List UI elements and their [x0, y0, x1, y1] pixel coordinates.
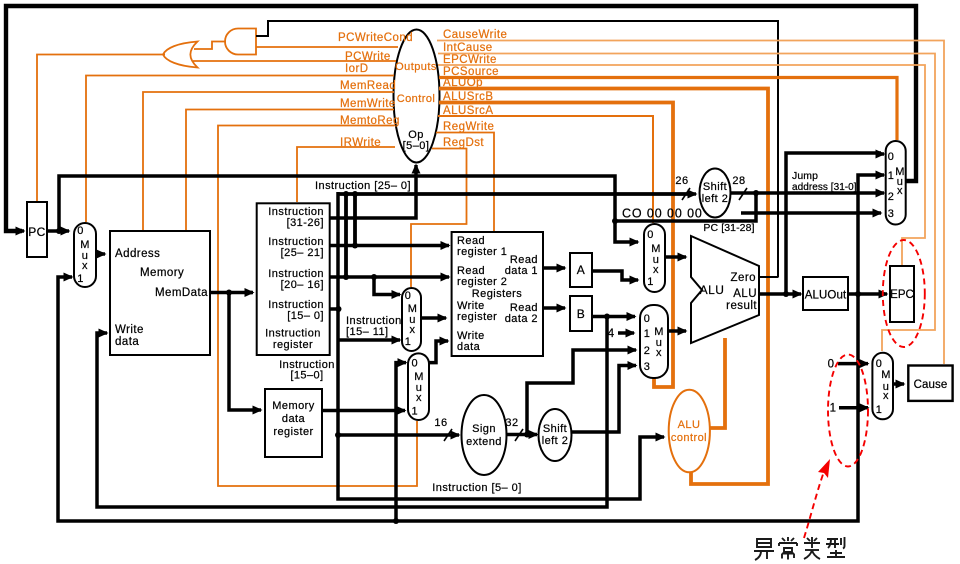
- svg-text:[25– 21]: [25– 21]: [281, 247, 324, 259]
- svg-text:EPC: EPC: [890, 289, 914, 301]
- svg-text:0: 0: [647, 229, 654, 241]
- wire 4 to srcB mux 1: [618, 331, 634, 335]
- wire PCWrite: [193, 60, 396, 62]
- svg-text:x: x: [897, 185, 903, 197]
- svg-text:PCWriteCond: PCWriteCond: [338, 32, 413, 44]
- wire IRWrite: [297, 147, 395, 202]
- wire sign extend to srcB mux 2 staircase: [527, 350, 636, 435]
- wire PC[31-28]: [615, 194, 756, 221]
- svg-text:Memory: Memory: [140, 267, 184, 279]
- svg-text:register: register: [457, 311, 497, 323]
- wire ALUSrcB: [439, 103, 673, 388]
- wire bus vertical C instruction[25-21]: [353, 194, 357, 246]
- svg-text:2: 2: [888, 191, 895, 203]
- svg-text:1: 1: [412, 406, 419, 418]
- slash 16: [444, 429, 452, 441]
- wire IR[20-16] branch to regdst mux 0: [374, 277, 400, 295]
- svg-text:IorD: IorD: [345, 63, 369, 75]
- svg-text:data: data: [282, 413, 306, 425]
- node bus C top: [352, 191, 358, 197]
- box memory data register: [265, 389, 322, 457]
- wire arrow into shift left 2a: [688, 192, 696, 196]
- svg-text:result: result: [726, 300, 757, 312]
- svg-text:1: 1: [647, 276, 654, 288]
- svg-text:0: 0: [405, 290, 412, 302]
- wire IR[15-0] output: [330, 306, 342, 312]
- wire shift left 2 upper output to PC mux 2: [731, 190, 885, 196]
- mux PCSource: [886, 141, 906, 225]
- svg-text:3: 3: [644, 361, 651, 373]
- svg-text:register 1: register 1: [457, 246, 507, 258]
- wire RegDst mux output to write register: [421, 316, 446, 320]
- svg-text:register 2: register 2: [457, 276, 507, 288]
- annotation red dashed ellipse around exception-type mux inputs: [828, 355, 868, 467]
- svg-text:x: x: [410, 324, 416, 336]
- wire PC up to top bus: [59, 176, 634, 242]
- wire PC output to IorD mux: [47, 228, 69, 234]
- wire ALUOut up to PC mux 1: [858, 175, 884, 294]
- svg-text:Instruction [25– 0]: Instruction [25– 0]: [315, 180, 411, 192]
- label Instruction [15-0] below IR: [279, 359, 335, 382]
- and-gate (PCWriteCond AND Zero): [225, 29, 256, 55]
- svg-text:[31-26]: [31-26]: [287, 217, 324, 229]
- label exception type (Chinese) 异常类型 drawn as strokes: [754, 537, 845, 560]
- wire EPCWrite: [438, 65, 925, 265]
- wire srcA mux output to ALU: [665, 255, 686, 259]
- wire srcB mux output to ALU: [668, 329, 686, 333]
- svg-text:x: x: [416, 392, 422, 404]
- svg-text:2: 2: [644, 345, 651, 357]
- svg-text:Instruction [5– 0]: Instruction [5– 0]: [432, 482, 521, 494]
- mux MemtoReg: [408, 353, 429, 420]
- node bus B top: [343, 191, 349, 197]
- wire B to srcB mux 0 and write-data loop: [97, 314, 635, 508]
- wire instruction[15-11] to regdst mux 1: [338, 338, 400, 342]
- wire PC-source mux output loop (outer frame): [6, 6, 916, 231]
- svg-text:1: 1: [876, 404, 883, 416]
- node PC[31-28] junction: [612, 218, 618, 224]
- wire shift left 2 lower output to srcB mux 3: [572, 366, 637, 433]
- oval sign extend: [462, 395, 507, 475]
- mux Cause exception type: [872, 353, 893, 420]
- wire read data 2 to B: [543, 306, 565, 310]
- svg-text:M: M: [881, 369, 891, 381]
- wire A to srcA mux 1: [592, 271, 638, 280]
- char chang2 常: [779, 537, 797, 560]
- svg-text:RegWrite: RegWrite: [443, 121, 494, 133]
- svg-text:data 2: data 2: [505, 313, 538, 325]
- svg-text:0: 0: [77, 225, 84, 237]
- wire ALUOp: [439, 89, 768, 485]
- wire RegDst: [411, 149, 467, 288]
- svg-text:ALU: ALU: [700, 283, 725, 297]
- wire ALUOut loop branch to MemtoReg mux 0: [396, 363, 406, 521]
- wire sign extend output: [507, 432, 538, 438]
- svg-text:Zero: Zero: [731, 272, 756, 284]
- wire PCWriteCond: [256, 46, 398, 48]
- svg-text:Address: Address: [115, 248, 160, 260]
- mux RegDst: [402, 288, 421, 351]
- label Instruction [15-11]: [346, 315, 402, 338]
- wire RegWrite: [436, 133, 494, 232]
- svg-text:x: x: [883, 390, 889, 402]
- wire CO constant to PC mux 3: [741, 211, 881, 215]
- wire constant 1 to cause mux: [839, 406, 868, 410]
- box instruction register: [257, 203, 330, 355]
- svg-text:data: data: [457, 341, 481, 353]
- wire arrow into ALU control: [656, 435, 664, 439]
- svg-text:[15– 11]: [15– 11]: [346, 326, 389, 338]
- annotation red dashed ellipse around EPC: [883, 240, 925, 347]
- register B: [570, 296, 592, 331]
- wire ALU control output to ALU: [710, 338, 725, 428]
- svg-text:control: control: [671, 432, 707, 444]
- wire CauseWrite: [437, 41, 944, 365]
- svg-text:1: 1: [77, 273, 84, 285]
- wire MemtoReg: [218, 126, 417, 487]
- svg-text:ALU: ALU: [733, 288, 757, 300]
- wire sign extend input: [335, 432, 459, 438]
- svg-text:Sign: Sign: [472, 423, 496, 435]
- box Memory: [110, 231, 210, 355]
- slash 28: [739, 188, 747, 200]
- wire ALUOut bottom loop to IorD mux 1: [58, 277, 858, 524]
- svg-text:1: 1: [644, 328, 651, 340]
- annotation red dashed arrow: [804, 459, 830, 538]
- register PC: [27, 202, 47, 257]
- wire MemRead: [143, 92, 394, 230]
- svg-text:register: register: [273, 339, 313, 351]
- svg-text:Outputs: Outputs: [395, 61, 437, 73]
- svg-text:28: 28: [732, 175, 745, 187]
- svg-text:Registers: Registers: [472, 288, 523, 300]
- mux ALUSrcB: [640, 305, 668, 378]
- wire constant 0 to cause mux: [838, 362, 868, 366]
- svg-text:26: 26: [675, 175, 688, 187]
- svg-text:0: 0: [888, 151, 895, 163]
- svg-text:1: 1: [888, 170, 895, 182]
- svg-text:0: 0: [412, 358, 419, 370]
- svg-text:left 2: left 2: [702, 193, 729, 205]
- wire ALU result to ALUOut: [759, 291, 801, 297]
- svg-text:left 2: left 2: [542, 435, 569, 447]
- mux ALUSrcA: [644, 224, 665, 292]
- wire IorD: [86, 76, 394, 223]
- wire MemtoReg mux output to write data: [429, 341, 448, 363]
- box Cause: [908, 366, 952, 401]
- svg-text:Shift: Shift: [543, 423, 567, 435]
- svg-text:4: 4: [607, 326, 614, 340]
- wire bus vertical B instruction[20-16]: [344, 194, 348, 277]
- wire Instruction[25-0] bus: [338, 192, 692, 196]
- oval ALU control: [669, 390, 710, 473]
- wire MemWrite: [186, 110, 394, 231]
- wire read data 1 to A: [543, 266, 565, 270]
- svg-text:register: register: [273, 426, 313, 438]
- svg-text:Shift: Shift: [703, 181, 727, 193]
- svg-text:MemData: MemData: [155, 287, 208, 299]
- svg-text:ALU: ALU: [678, 419, 701, 431]
- wire MDR output to MemtoReg mux 1: [322, 409, 405, 413]
- wire bus vertical A instruction[15-0]: [338, 192, 660, 499]
- svg-text:A: A: [577, 263, 585, 277]
- wire ALU result up to PC mux 0: [786, 153, 884, 294]
- slash 32: [515, 429, 523, 441]
- box EPC: [890, 266, 914, 322]
- svg-text:CO 00 00 00: CO 00 00 00: [622, 207, 703, 221]
- box Registers: [452, 232, 543, 356]
- oval shift left 2 lower: [539, 409, 572, 461]
- wire or-gate output to PC write enable: [37, 55, 165, 203]
- svg-text:MemRead: MemRead: [340, 80, 396, 92]
- svg-text:Instruction: Instruction: [265, 328, 321, 340]
- wire Zero output: [759, 276, 778, 278]
- wire arrow into srcA mux 0: [630, 240, 638, 244]
- svg-text:x: x: [82, 260, 88, 272]
- svg-text:PC: PC: [28, 225, 46, 239]
- svg-text:Jump: Jump: [792, 170, 818, 182]
- char lei4 类: [804, 537, 820, 559]
- mux IorD: [74, 223, 96, 287]
- svg-text:[15– 0]: [15– 0]: [287, 310, 324, 322]
- svg-text:address [31-0]: address [31-0]: [792, 182, 857, 193]
- svg-text:[5–0]: [5–0]: [403, 140, 430, 152]
- wire IR[20-16] to read register 2: [330, 274, 449, 280]
- label Jump address [31-0]: [792, 170, 857, 193]
- svg-text:Cause: Cause: [914, 379, 948, 391]
- svg-text:32: 32: [505, 417, 518, 429]
- wire IorD mux output to Memory Address: [96, 252, 105, 256]
- svg-text:ALUOut: ALUOut: [805, 290, 847, 302]
- svg-text:[15–0]: [15–0]: [290, 370, 323, 382]
- svg-text:RegDst: RegDst: [443, 137, 484, 149]
- or-gate (PC write enable): [163, 42, 198, 68]
- svg-text:x: x: [656, 347, 662, 359]
- register A: [570, 253, 592, 287]
- wire MemData to memory data register: [229, 293, 261, 411]
- slash 26: [682, 188, 690, 200]
- wire IR[25-21] to read register 1: [330, 243, 449, 249]
- svg-text:extend: extend: [466, 436, 502, 448]
- wire and-gate output to or-gate input: [194, 42, 226, 50]
- svg-text:CauseWrite: CauseWrite: [443, 29, 507, 41]
- svg-text:data: data: [115, 336, 139, 348]
- svg-text:0: 0: [644, 313, 651, 325]
- svg-text:Memory: Memory: [272, 400, 314, 412]
- svg-text:data 1: data 1: [505, 265, 538, 277]
- svg-text:Control: Control: [397, 93, 436, 105]
- wire MemData to IR: [210, 290, 253, 296]
- wire IR[31-26] to control Op: [330, 165, 416, 218]
- svg-text:IntCause: IntCause: [443, 42, 493, 54]
- wire ALUSrcA: [438, 116, 653, 223]
- svg-text:B: B: [577, 307, 585, 321]
- svg-text:3: 3: [888, 208, 895, 220]
- alu U2: [691, 236, 759, 343]
- svg-text:x: x: [653, 264, 659, 276]
- svg-text:[20– 16]: [20– 16]: [281, 279, 324, 291]
- svg-text:1: 1: [830, 403, 837, 415]
- svg-text:MemWrite: MemWrite: [340, 98, 396, 110]
- wire IntCause: [438, 54, 935, 352]
- svg-text:Write: Write: [115, 324, 144, 336]
- svg-text:0: 0: [828, 359, 835, 371]
- wire Zero to and-gate (black): [256, 21, 778, 278]
- char xing2 型: [826, 537, 845, 557]
- control oval U1: [394, 30, 440, 163]
- wire ALUOut to EPC: [848, 291, 887, 297]
- wire PCSource: [439, 78, 897, 141]
- svg-text:PC [31-28]: PC [31-28]: [703, 222, 754, 234]
- svg-text:16: 16: [434, 417, 447, 429]
- wire cause mux output to Cause: [893, 382, 904, 386]
- box ALUOut: [803, 277, 848, 310]
- oval shift left 2 upper: [700, 169, 731, 218]
- svg-text:1: 1: [405, 336, 412, 348]
- char yi4 异: [754, 539, 774, 560]
